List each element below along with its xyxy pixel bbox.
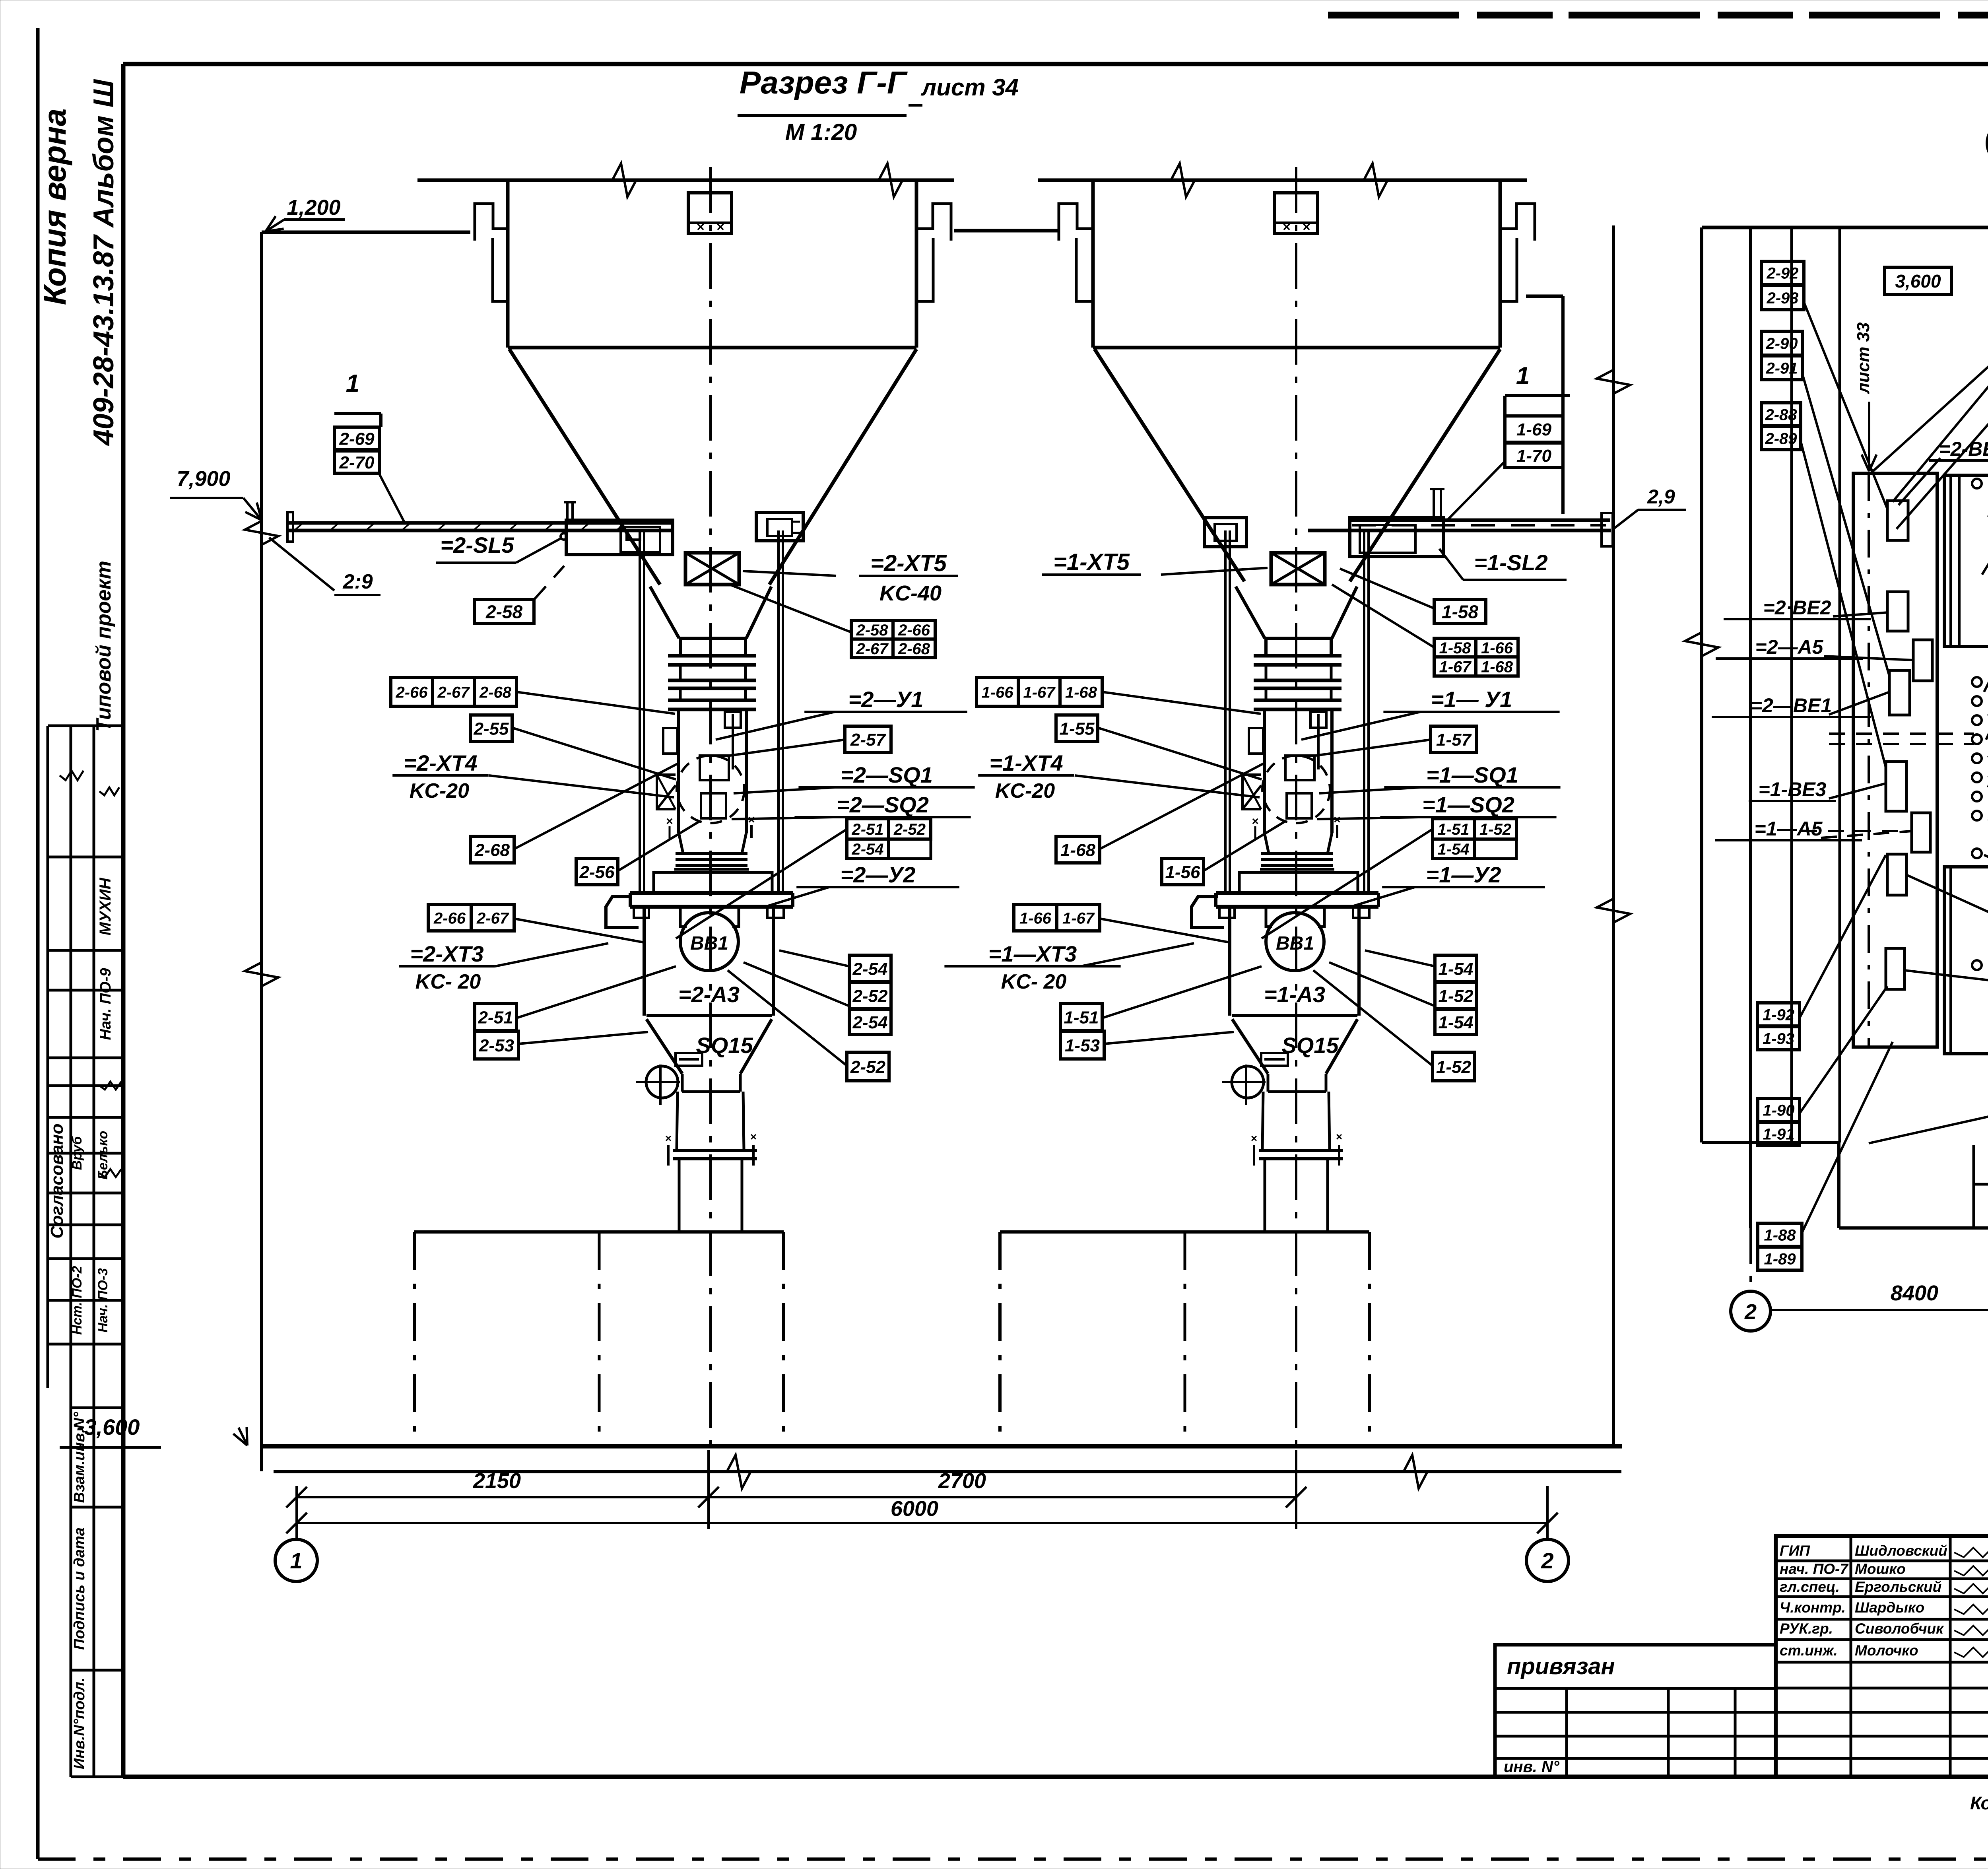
svg-text:1: 1	[1516, 362, 1530, 390]
svg-text:=1-XT5: =1-XT5	[1053, 549, 1130, 575]
label boxes 1-52 1-54	[1435, 983, 1477, 1008]
svg-text:2-58: 2-58	[485, 602, 522, 622]
conveyor platform right	[1350, 519, 1610, 522]
left bunker side collars	[493, 238, 509, 301]
conveyor drive box SL2	[1350, 518, 1443, 557]
label box 2-68	[470, 836, 514, 863]
inter-bunker floor line	[954, 229, 1059, 233]
svg-text:=2—У1: =2—У1	[848, 687, 924, 712]
svg-text:×: ×	[1252, 815, 1259, 828]
svg-text:KC-20: KC-20	[995, 779, 1055, 802]
support platform 2	[630, 891, 793, 895]
platform angle brackets 2	[634, 907, 649, 918]
dimension line 2150 / 2700	[297, 1496, 1296, 1498]
svg-text:2-52: 2-52	[893, 821, 926, 838]
left sidebar edge line	[36, 28, 40, 1859]
svg-text:=2—SQ2: =2—SQ2	[837, 792, 929, 817]
device box on left bunker right slope	[756, 513, 803, 541]
svg-text:2-90: 2-90	[1765, 335, 1798, 352]
label box 1-53	[1060, 1031, 1104, 1059]
device 1-ВЕ2	[1887, 854, 1906, 895]
svg-text:1-67: 1-67	[1439, 658, 1472, 676]
centerline of unit 1	[1295, 167, 1297, 1446]
label box 1-56	[1162, 859, 1204, 885]
svg-text:2-52: 2-52	[852, 986, 888, 1006]
svg-text:1-66: 1-66	[1019, 909, 1052, 927]
label box 2-56	[576, 859, 618, 885]
svg-text:=2—SQ1: =2—SQ1	[841, 762, 933, 787]
feeder box KC-40 of unit 2	[685, 553, 739, 585]
svg-text:×: ×	[1303, 220, 1310, 235]
scan edge dashed bottom	[38, 1857, 1988, 1861]
cone side box 2	[676, 1053, 702, 1066]
platform angle brackets 1	[1219, 907, 1235, 918]
mixer neck 2	[679, 638, 682, 656]
floor second line	[274, 1470, 1621, 1473]
svg-text:-3,600: -3,600	[77, 1414, 140, 1440]
svg-text:2-70: 2-70	[339, 453, 375, 472]
pipe flange 2	[673, 1149, 757, 1152]
svg-text:409-28-43.13.87 Альбом Ш: 409-28-43.13.87 Альбом Ш	[88, 79, 120, 446]
svg-text:=1—SQ1: =1—SQ1	[1426, 762, 1518, 787]
label box 2-55	[470, 715, 512, 742]
svg-text:1-91: 1-91	[1763, 1125, 1794, 1143]
svg-text:1-55: 1-55	[1059, 719, 1095, 738]
cabinet row rectangle	[1853, 473, 1937, 1047]
vent pipe on SL2	[1433, 489, 1435, 518]
svg-text:2-56: 2-56	[579, 863, 615, 882]
label box 1-51	[1060, 1004, 1102, 1030]
conveyor drive box SL5	[566, 520, 673, 555]
svg-text:Шидловский: Шидловский	[1855, 1543, 1947, 1559]
svg-text:KC-20: KC-20	[410, 779, 469, 802]
svg-text:2-53: 2-53	[479, 1036, 514, 1055]
label box 2-51	[475, 1004, 516, 1030]
underfloor bin 2	[414, 1230, 784, 1234]
svg-text:×: ×	[1251, 1132, 1257, 1144]
svg-text:=1-XT4: =1-XT4	[989, 750, 1063, 775]
discharge neck 2	[681, 1074, 684, 1092]
plan bottom rooms	[1702, 1141, 1839, 1144]
svg-text:×: ×	[666, 815, 673, 828]
device 2-ВЕ1	[1889, 670, 1910, 715]
cone side box 1	[1261, 1053, 1288, 1066]
svg-text:1-93: 1-93	[1763, 1030, 1794, 1047]
svg-text:1-57: 1-57	[1436, 730, 1472, 750]
svg-text:=2—A5: =2—A5	[1755, 636, 1824, 658]
svg-text:1-69: 1-69	[1516, 420, 1552, 439]
svg-text:×: ×	[750, 1131, 757, 1143]
svg-text:2-67: 2-67	[476, 909, 509, 927]
device 2-ВЕ2	[1887, 592, 1908, 631]
discharge neck 1	[1267, 1074, 1270, 1092]
svg-text:1-68: 1-68	[1481, 658, 1513, 676]
mixer flanges 2	[668, 654, 756, 658]
conveyor platform el.7,900	[287, 521, 673, 525]
vibrator circle BB1 2	[680, 913, 738, 971]
label boxes 2-52 2-54	[849, 983, 891, 1008]
svg-text:1-58: 1-58	[1439, 639, 1471, 657]
mixer base frame 1	[1239, 872, 1358, 893]
device 2-ВЕ3	[1887, 501, 1908, 540]
label box 1-58	[1434, 600, 1486, 624]
vessel cone 1	[1232, 1019, 1268, 1074]
svg-text:2-54: 2-54	[851, 841, 883, 858]
sidebar stamp table	[70, 726, 72, 1777]
vessel cone 2	[646, 1019, 682, 1074]
right end bracket	[1602, 513, 1613, 546]
svg-text:гл.спец.: гл.спец.	[1780, 1579, 1840, 1595]
svg-text:лист 33: лист 33	[1854, 322, 1873, 394]
svg-text:М 1:20: М 1:20	[785, 119, 857, 145]
vibrator legs 2	[680, 907, 687, 927]
svg-text:2-68: 2-68	[479, 684, 512, 701]
label row 1-66 1-67 second	[1014, 905, 1057, 931]
device 1-ВЕ3	[1886, 762, 1906, 811]
label box 1-57	[1431, 726, 1477, 752]
left bunker funnel slopes	[509, 349, 660, 585]
svg-text:Нач. ПО-9: Нач. ПО-9	[97, 968, 114, 1040]
svg-text:2-55: 2-55	[473, 719, 509, 738]
svg-text:2: 2	[1744, 1300, 1757, 1324]
left end bracket	[287, 512, 293, 542]
svg-text:2-67: 2-67	[856, 640, 889, 658]
label row 2-66 2-67 second	[428, 905, 471, 931]
valve handwheel 2	[646, 1066, 678, 1098]
label grid 2-51 2-52 2-54	[847, 819, 889, 839]
down pipe 2	[678, 1160, 681, 1232]
svg-text:1-66: 1-66	[981, 684, 1013, 701]
svg-text:1-54: 1-54	[1437, 841, 1469, 858]
right bunker funnel slopes	[1095, 349, 1244, 581]
right bunker corner bracket right	[1500, 204, 1535, 241]
svg-text:1: 1	[290, 1548, 302, 1573]
svg-text:1-88: 1-88	[1764, 1226, 1796, 1244]
svg-text:Инв.N°подл.: Инв.N°подл.	[71, 1678, 88, 1770]
mixer flanges 1	[1254, 654, 1342, 658]
ceiling line left span	[417, 179, 954, 182]
left bunker corner bracket left	[475, 204, 508, 241]
down pipe 1	[1264, 1160, 1266, 1232]
svg-text:1: 1	[346, 370, 359, 397]
svg-text:=1-SL2: =1-SL2	[1474, 550, 1547, 575]
label box 1-54 right	[1435, 955, 1477, 982]
svg-text:2-52: 2-52	[850, 1057, 886, 1077]
svg-text:Сиволобчик: Сиволобчик	[1855, 1620, 1944, 1637]
svg-text:=1-A3: =1-A3	[1264, 982, 1325, 1007]
svg-text:2-67: 2-67	[437, 684, 470, 701]
discharge pipe upper 2	[677, 1092, 678, 1149]
svg-text:2-69: 2-69	[339, 429, 375, 449]
svg-text:1-67: 1-67	[1062, 909, 1095, 927]
pipe flange 1	[1259, 1149, 1343, 1152]
svg-text:2-54: 2-54	[852, 1013, 887, 1032]
plan left label boxes 2-92 2-93	[1761, 261, 1804, 284]
dimension line 6000	[297, 1522, 1547, 1524]
svg-text:×: ×	[1336, 1131, 1342, 1143]
svg-text:KC- 20: KC- 20	[415, 970, 481, 993]
panel lower	[1944, 867, 1988, 1054]
svg-text:2-91: 2-91	[1765, 359, 1798, 377]
svg-text:Копировала: Копировала	[1970, 1793, 1988, 1813]
label box 2-52 bottom	[847, 1052, 889, 1081]
svg-text:2-68: 2-68	[474, 840, 510, 860]
support columns 2	[639, 530, 641, 893]
dimension extension lines	[295, 1486, 298, 1540]
plan left label boxes 1-88 1-89	[1758, 1223, 1802, 1246]
svg-text:1-92: 1-92	[1763, 1006, 1794, 1024]
svg-text:Ч.контр.: Ч.контр.	[1780, 1599, 1846, 1616]
label grid 2-58 2-66 2-67 2-68	[851, 620, 893, 639]
svg-text:1-52: 1-52	[1479, 821, 1511, 838]
label box 2-54 right	[849, 955, 891, 982]
svg-text:SQ15: SQ15	[1281, 1033, 1339, 1058]
ceiling line right span	[1038, 179, 1527, 182]
plan left label boxes 2-88 2-89	[1761, 403, 1801, 426]
svg-text:=1—A5: =1—A5	[1755, 818, 1823, 840]
label box 2-58	[474, 600, 534, 624]
svg-text:Копия верна: Копия верна	[37, 109, 72, 305]
svg-text:Типовой проект: Типовой проект	[92, 561, 115, 732]
svg-text:3,600: 3,600	[1895, 271, 1941, 291]
right bunker corner bracket left	[1059, 204, 1093, 241]
left bunker top hatch	[688, 193, 732, 233]
svg-text:Подпись и дата: Подпись и дата	[71, 1527, 88, 1650]
vessel 2	[643, 909, 646, 1016]
label row 1-66 1-67 1-68	[977, 678, 1018, 706]
discharge pipe upper 1	[1262, 1092, 1263, 1149]
plan left label boxes 1-90 1-91	[1758, 1098, 1800, 1121]
svg-text:Шардыко: Шардыко	[1855, 1599, 1924, 1616]
vibrator legs 1	[1266, 907, 1272, 927]
mixer bottom flange stack 2	[676, 852, 747, 855]
plan left label boxes 2-90 2-91	[1761, 331, 1802, 355]
left bunker corner bracket right	[916, 204, 951, 241]
support columns 1	[1224, 530, 1227, 893]
device 1-ВЕ1	[1886, 948, 1905, 989]
svg-text:1-68: 1-68	[1065, 684, 1097, 701]
leader установка	[1893, 272, 1988, 502]
svg-text:1-53: 1-53	[1065, 1036, 1100, 1055]
svg-text:2-66: 2-66	[433, 909, 466, 927]
svg-text:2-92: 2-92	[1766, 264, 1798, 282]
left duct elbow 1	[1192, 897, 1224, 927]
svg-text:=1—XT3: =1—XT3	[988, 941, 1077, 966]
right bunker top hatch	[1274, 193, 1318, 233]
axis circle 2	[1526, 1539, 1569, 1581]
label grid 1-51 1-52 1-54	[1433, 819, 1474, 839]
vessel 1	[1228, 909, 1231, 1016]
svg-text:1-90: 1-90	[1763, 1102, 1794, 1119]
svg-text:Молочко: Молочко	[1855, 1642, 1918, 1659]
label grid 1-58 1-66 1-67 1-68	[1434, 638, 1476, 657]
svg-text:=2-XT4: =2-XT4	[404, 750, 477, 775]
svg-text:2-93: 2-93	[1766, 289, 1798, 307]
mixer bellows 1	[1264, 833, 1269, 853]
right bunker side collars	[1076, 238, 1093, 301]
privyazan table	[1495, 1645, 1776, 1777]
svg-text:2150: 2150	[473, 1469, 521, 1493]
vent pipe on SL5	[566, 502, 569, 520]
plan outer walls	[1702, 226, 1988, 229]
svg-text:2700: 2700	[938, 1469, 986, 1493]
svg-text:2,9: 2,9	[1647, 486, 1675, 508]
svg-text:2-58: 2-58	[856, 622, 888, 639]
plan left label boxes 1-92 1-93	[1757, 1003, 1800, 1026]
svg-text:ст.инж.: ст.инж.	[1780, 1642, 1838, 1659]
svg-text:1-68: 1-68	[1060, 840, 1096, 860]
svg-text:=2-XT3: =2-XT3	[410, 941, 483, 966]
left bunker walls	[506, 180, 510, 348]
svg-text:7,900: 7,900	[177, 467, 230, 491]
svg-text:1-56: 1-56	[1165, 863, 1200, 882]
vibrator circle BB1 1	[1266, 913, 1324, 971]
stamp signature rows	[1776, 1560, 1988, 1562]
svg-text:1-51: 1-51	[1064, 1008, 1099, 1027]
label box 2-53	[475, 1031, 518, 1059]
left duct elbow 2	[606, 897, 639, 927]
roof line upper left (el.1,200)	[262, 231, 470, 234]
svg-text:лист 34: лист 34	[920, 74, 1019, 101]
svg-text:1-89: 1-89	[1764, 1250, 1796, 1268]
stamp signature columns	[1850, 1536, 1852, 1777]
axis circle 1	[275, 1539, 317, 1581]
right bunker walls	[1091, 180, 1095, 348]
svg-text:Разрез Г-Г: Разрез Г-Г	[740, 65, 908, 100]
svg-text:2-51: 2-51	[478, 1008, 513, 1027]
svg-text:=1—У2: =1—У2	[1426, 862, 1501, 887]
right side floor line	[1526, 295, 1563, 298]
svg-text:2-68: 2-68	[898, 640, 930, 658]
svg-text:KC- 20: KC- 20	[1001, 970, 1067, 993]
svg-text:1-54: 1-54	[1438, 959, 1473, 979]
label boxes 1-69 1-70	[1505, 416, 1563, 442]
mixer drum walls 2	[677, 709, 680, 833]
panel upper	[1944, 475, 1988, 647]
scan edge bar top	[1328, 12, 1988, 19]
plan axis circle 2	[1731, 1291, 1771, 1331]
main stamp outline	[1776, 1536, 1988, 1777]
label box 2-57	[845, 726, 891, 752]
svg-text:×: ×	[716, 220, 724, 235]
svg-text:1-58: 1-58	[1442, 602, 1478, 622]
svg-text:2-57: 2-57	[850, 730, 887, 750]
svg-text:2-51: 2-51	[851, 821, 883, 838]
label 3,600 level box	[1885, 267, 1951, 295]
svg-text:8400: 8400	[1891, 1281, 1938, 1305]
right bunker funnel top edge	[1093, 346, 1500, 350]
svg-text:SQ15: SQ15	[696, 1033, 753, 1058]
mixer feed funnel 2	[650, 587, 679, 638]
svg-text:KC-40: KC-40	[879, 581, 942, 605]
mixer internals 1	[1249, 728, 1263, 754]
svg-text:6000: 6000	[891, 1497, 938, 1521]
svg-text:=2·BE2: =2·BE2	[1763, 596, 1831, 619]
drawing frame border	[123, 62, 1988, 66]
svg-text:2-66: 2-66	[395, 684, 428, 701]
svg-text:1-52: 1-52	[1438, 986, 1474, 1006]
svg-text:=1— У1: =1— У1	[1431, 687, 1512, 712]
plan title circle III	[1987, 121, 1988, 165]
svg-text:=2-SL5: =2-SL5	[440, 532, 514, 558]
terminal circles column	[1972, 479, 1982, 488]
label row 2-66 2-67 2-68	[391, 678, 433, 706]
underfloor bin 1	[1000, 1230, 1369, 1234]
device 2-А5	[1913, 640, 1932, 681]
svg-text:2-89: 2-89	[1765, 430, 1797, 447]
left bunker funnel top edge	[508, 346, 916, 350]
label box 1-68	[1056, 836, 1100, 863]
valve handwheel 1	[1232, 1066, 1264, 1098]
svg-text:=2-A3: =2-A3	[678, 982, 740, 1007]
svg-text:1-51: 1-51	[1437, 821, 1469, 838]
svg-text:ГИП: ГИП	[1780, 1543, 1810, 1559]
plan dimension 8400	[1771, 1309, 1988, 1311]
svg-text:1-54: 1-54	[1438, 1013, 1473, 1032]
svg-text:=1-BE3: =1-BE3	[1759, 778, 1827, 800]
device 1-А5	[1912, 813, 1930, 852]
svg-text:1-67: 1-67	[1023, 684, 1056, 701]
svg-text:×: ×	[697, 220, 705, 235]
left wall of building	[260, 232, 263, 1471]
svg-text:=2—У2: =2—У2	[841, 862, 916, 887]
svg-text:нач. ПО-7: нач. ПО-7	[1780, 1561, 1849, 1577]
svg-text:1,200: 1,200	[287, 196, 340, 220]
sidebar signature squiggles	[60, 771, 83, 780]
svg-text:1-52: 1-52	[1436, 1057, 1472, 1077]
label boxes 2-69 2-70	[334, 427, 379, 450]
svg-text:1-70: 1-70	[1516, 446, 1552, 466]
svg-text:Нст. ПО-2: Нст. ПО-2	[70, 1266, 85, 1335]
svg-text:=1—SQ2: =1—SQ2	[1422, 792, 1514, 817]
svg-text:2-88: 2-88	[1765, 406, 1797, 424]
device box on right bunker left slope	[1204, 518, 1246, 547]
svg-text:2: 2	[1541, 1548, 1553, 1573]
support platform 1	[1216, 891, 1378, 895]
svg-text:=2-BE3: =2-BE3	[1939, 438, 1988, 460]
svg-text:Мошко: Мошко	[1855, 1561, 1906, 1577]
svg-text:Нач. ПО-3: Нач. ПО-3	[95, 1268, 111, 1333]
leader from table to plan	[1871, 207, 1988, 473]
right wall column	[1612, 225, 1615, 1446]
svg-text:×: ×	[665, 1132, 672, 1144]
svg-text:Вруб: Вруб	[70, 1136, 85, 1170]
mixer bellows 2	[679, 833, 683, 853]
svg-text:Согласовано: Согласовано	[47, 1123, 67, 1238]
svg-text:2:9: 2:9	[342, 570, 373, 593]
svg-text:1-66: 1-66	[1481, 639, 1513, 657]
label box 1-55	[1056, 715, 1098, 742]
svg-text:РУК.гр.: РУК.гр.	[1780, 1620, 1833, 1637]
svg-text:МУХИН: МУХИН	[97, 878, 114, 936]
centerline of unit 2	[709, 167, 712, 1446]
label box 1-52 bottom	[1433, 1052, 1475, 1081]
mixer neck 1	[1264, 638, 1268, 656]
mixer bottom flange stack 1	[1261, 852, 1333, 855]
svg-text:×: ×	[1283, 220, 1291, 235]
mixer base frame 2	[654, 872, 772, 893]
svg-text:привязан: привязан	[1507, 1653, 1615, 1679]
svg-text:инв. N°: инв. N°	[1504, 1758, 1560, 1776]
mixer internals 2	[663, 728, 678, 754]
cable dashed runs	[1829, 732, 1974, 735]
mixer feed funnel 1	[1236, 587, 1265, 638]
feeder box KC-40 of unit 1	[1271, 553, 1325, 585]
svg-text:=2—BE1: =2—BE1	[1751, 694, 1832, 717]
svg-text:2-66: 2-66	[898, 622, 930, 639]
floor line el.-3,600	[260, 1444, 1622, 1449]
svg-text:2-54: 2-54	[852, 959, 887, 979]
